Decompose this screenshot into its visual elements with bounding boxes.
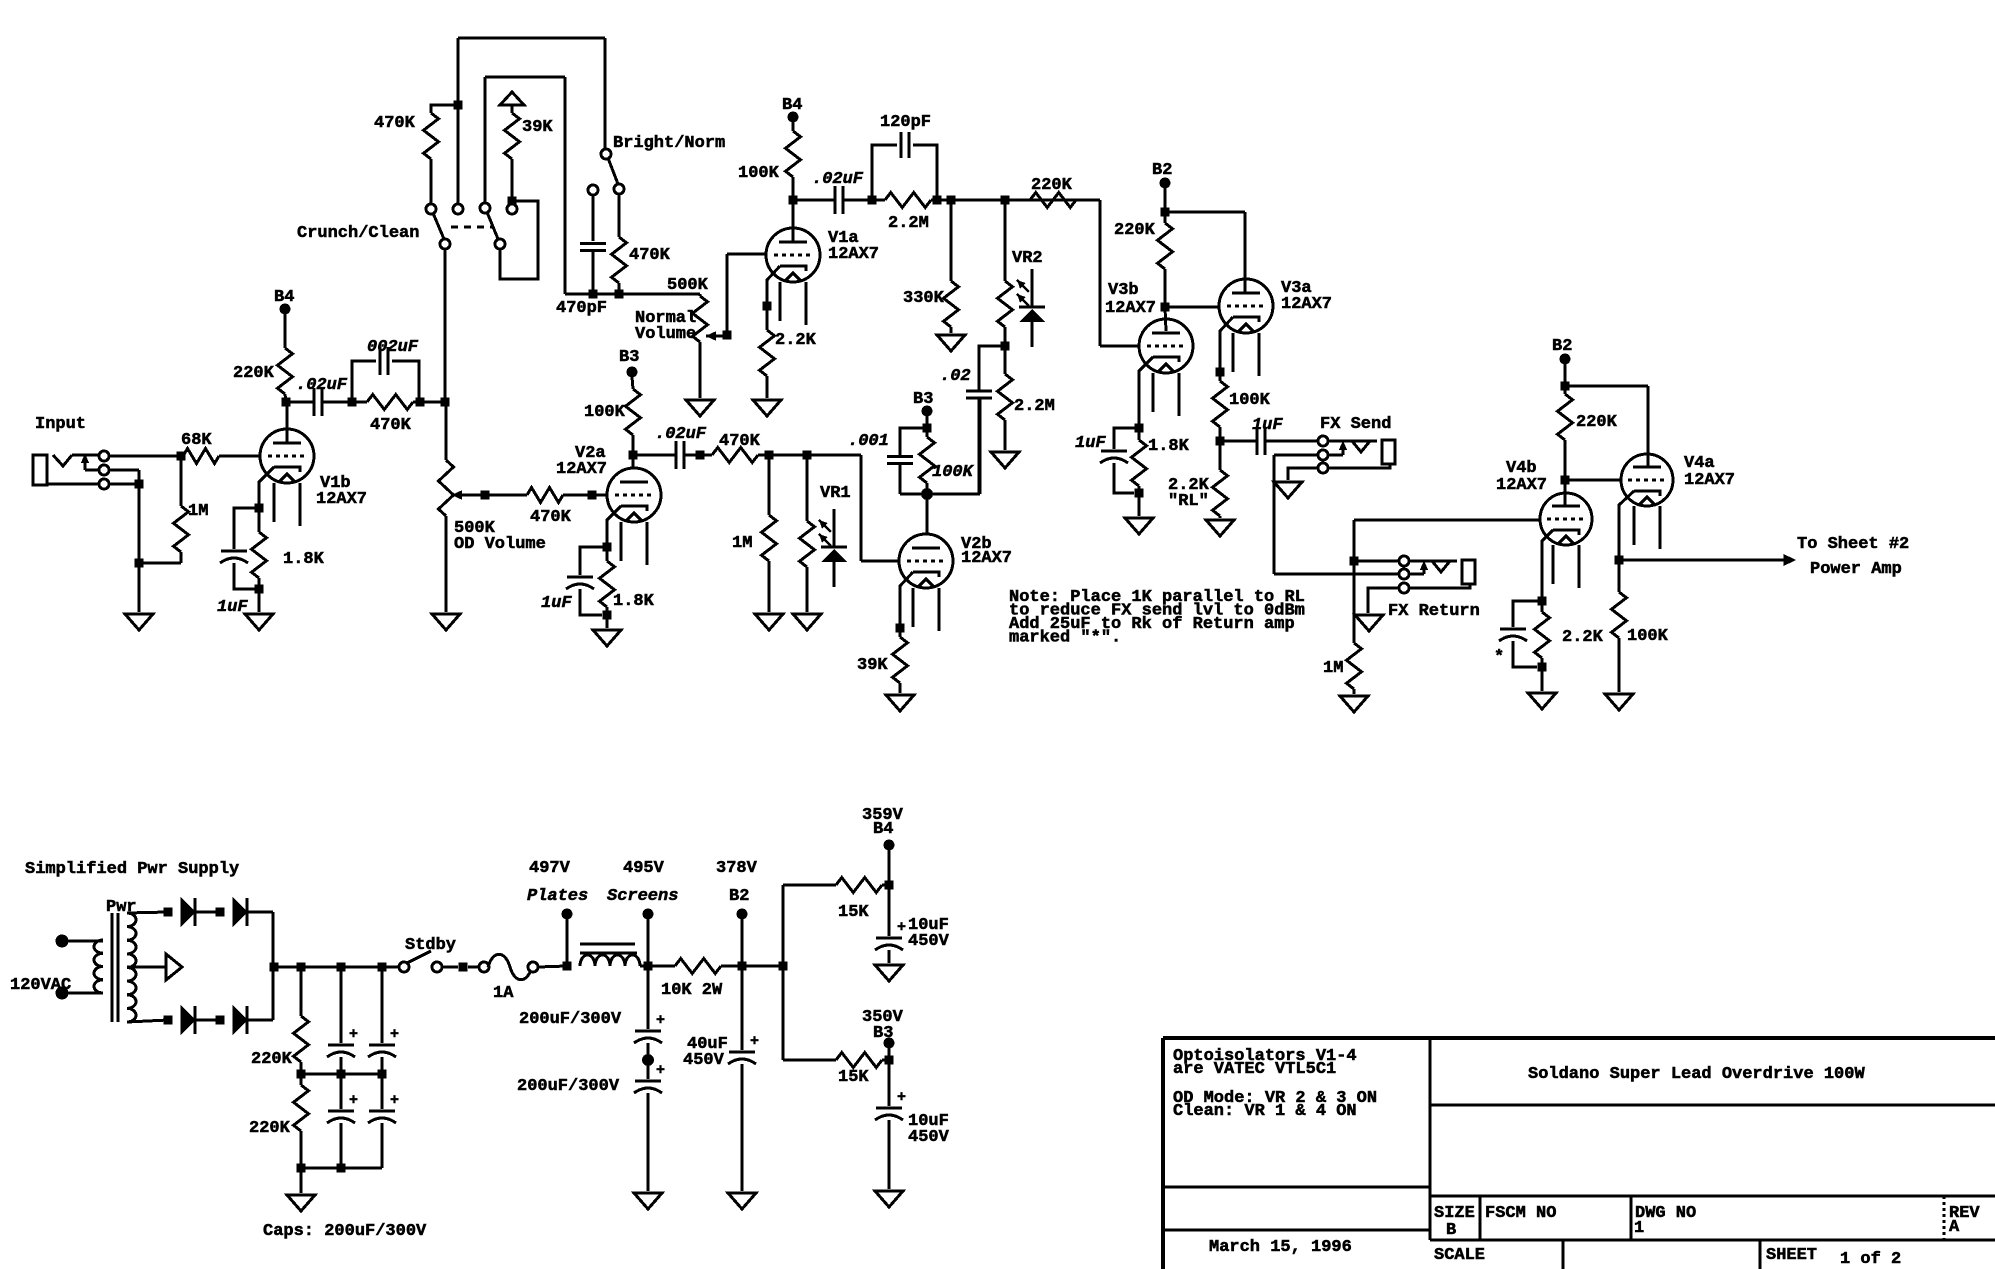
wire FX return sleeve	[1368, 588, 1399, 613]
switch Crunch/Clean pole2	[480, 203, 517, 249]
resistor 220K V3b plate	[1114, 212, 1173, 312]
wire FX send sleeve	[1288, 468, 1318, 480]
diode D3	[181, 1006, 195, 1034]
resistor 100K V2b plate	[920, 428, 975, 500]
svg-text:1A: 1A	[493, 984, 514, 1003]
wire choke out	[640, 962, 675, 971]
capacitor filter C2	[368, 967, 399, 1074]
resistor 220K V1b plate	[233, 314, 293, 402]
svg-text:100K: 100K	[932, 463, 975, 482]
svg-text:1.8K: 1.8K	[613, 592, 655, 611]
switch Stdby	[399, 936, 456, 972]
tube V4a	[1621, 454, 1735, 549]
ground 40uF	[728, 1193, 756, 1209]
wire V1b cathode	[255, 467, 275, 513]
svg-text:Clean: VR 1 & 4 ON: Clean: VR 1 & 4 ON	[1173, 1102, 1357, 1121]
svg-text:2.2K: 2.2K	[775, 331, 817, 350]
wire V4b cathode	[1538, 530, 1554, 606]
arrow center tap	[166, 954, 182, 980]
wire return to V4b grid	[1354, 520, 1540, 561]
svg-text:220K: 220K	[249, 1119, 291, 1138]
svg-text:B: B	[1446, 1221, 1456, 1240]
capacitor .02 VR2	[940, 346, 1005, 494]
resistor 2.2K V1a	[760, 306, 817, 398]
svg-text:B3: B3	[873, 1024, 893, 1043]
resistor 100K V1a plate	[738, 122, 801, 200]
ground RL	[1206, 520, 1234, 536]
resistor 220K V4	[1558, 386, 1618, 485]
resistor 39K V2b	[857, 628, 908, 693]
resistor 470K crunch	[374, 105, 458, 204]
wire V2a cathode	[603, 506, 622, 552]
ground 330K	[937, 335, 965, 351]
capacitor 120pF	[872, 113, 937, 200]
svg-text:1.8K: 1.8K	[1148, 437, 1190, 456]
resistor 470K bright	[612, 194, 671, 299]
svg-text:2.2M: 2.2M	[1014, 397, 1055, 416]
svg-text:200uF/300V: 200uF/300V	[519, 1010, 622, 1029]
svg-text:100K: 100K	[1627, 627, 1669, 646]
svg-text:.02: .02	[940, 367, 971, 386]
resistor 10K 2W	[661, 959, 747, 1001]
diode D1	[181, 898, 195, 926]
terminal 120VAC hot	[56, 935, 104, 948]
node 497V Plates	[527, 859, 588, 966]
svg-text:B2: B2	[729, 887, 749, 906]
svg-text:FX Return: FX Return	[1388, 602, 1480, 621]
capacitor .001	[848, 428, 927, 494]
svg-text:002uF: 002uF	[367, 338, 419, 357]
wire pole1 common down	[444, 248, 447, 402]
svg-text:12AX7: 12AX7	[1281, 295, 1332, 314]
resistor 220K bleeder2	[249, 1074, 309, 1173]
resistor 1M input	[143, 460, 208, 563]
wire out rail	[769, 451, 861, 460]
wire secondary top	[127, 908, 173, 917]
title block frame	[1163, 1038, 1995, 1269]
svg-text:Power Amp: Power Amp	[1810, 560, 1902, 579]
svg-text:FX Send: FX Send	[1320, 415, 1391, 434]
jack FX Send	[1318, 415, 1395, 473]
node B2 V4	[1552, 337, 1572, 365]
wire V4a grid	[1565, 479, 1622, 482]
svg-text:470K: 470K	[370, 416, 412, 435]
svg-text:39K: 39K	[857, 656, 888, 675]
wire wiper to V1a grid	[727, 254, 767, 335]
svg-text:Plates: Plates	[527, 887, 588, 906]
wire V2a grid	[592, 494, 607, 497]
resistor 2.2M	[872, 193, 942, 234]
wire bleeder gnd	[300, 1168, 303, 1193]
fscm cell	[1485, 1204, 1556, 1223]
wire cap bottom rail	[301, 1164, 382, 1173]
svg-text:120VAC: 120VAC	[10, 976, 71, 995]
ground 1M return	[1340, 696, 1368, 712]
svg-text:470K: 470K	[719, 432, 761, 451]
potentiometer 500K OD Volume	[439, 402, 546, 612]
svg-text:2.2K: 2.2K	[1562, 628, 1604, 647]
wire D3-D4	[196, 1016, 225, 1025]
svg-text:15K: 15K	[838, 1068, 869, 1087]
wire stdby out	[442, 963, 478, 972]
capacitor bypass V4b	[1494, 601, 1542, 667]
wire V3a plate	[1165, 212, 1245, 293]
svg-text:1uF: 1uF	[1252, 416, 1283, 435]
node B4 V1b	[274, 288, 294, 315]
ground 100K V4a	[1605, 694, 1633, 710]
wire cap mid rail	[301, 1070, 387, 1079]
svg-text:+: +	[656, 1012, 665, 1029]
note text	[1009, 588, 1305, 648]
wire V4a cathode	[1615, 491, 1635, 565]
wire V4a plate	[1565, 386, 1648, 466]
sheet cell	[1766, 1246, 1901, 1269]
ground 1M	[755, 614, 783, 630]
node 378V B2	[716, 859, 758, 966]
wire dropper riser	[783, 885, 836, 966]
resistor 220K bleeder1	[251, 967, 309, 1079]
svg-text:10K 2W: 10K 2W	[661, 981, 723, 1000]
wire D2 corner	[248, 912, 273, 967]
tube V3b	[1105, 281, 1193, 416]
wire V3a cathode	[1216, 317, 1234, 377]
wire input sleeve	[109, 483, 139, 486]
svg-text:120pF: 120pF	[880, 113, 931, 132]
svg-text:12AX7: 12AX7	[1496, 476, 1547, 495]
svg-text:are VATEC VTL5C1: are VATEC VTL5C1	[1173, 1060, 1336, 1079]
capacitor filter C3	[327, 1074, 358, 1168]
capacitor 1uF V1b	[217, 508, 259, 617]
svg-text:1M: 1M	[188, 502, 208, 521]
svg-text:FSCM NO: FSCM NO	[1485, 1204, 1556, 1223]
title block notes	[1173, 1047, 1377, 1121]
resistor 2.2K RL	[1168, 441, 1228, 518]
tube V2a	[556, 444, 661, 565]
svg-text:12AX7: 12AX7	[316, 490, 367, 509]
wire D4 corner	[248, 963, 279, 1021]
svg-text:March 15, 1996: March 15, 1996	[1209, 1238, 1352, 1257]
svg-text:B4: B4	[873, 820, 893, 839]
ground V4b	[1528, 693, 1556, 709]
svg-text:SHEET: SHEET	[1766, 1246, 1817, 1265]
svg-text:330K: 330K	[903, 289, 945, 308]
svg-text:OD Volume: OD Volume	[454, 535, 546, 554]
resistor 1.8K V3b	[1132, 428, 1190, 498]
resistor 470K V1b out	[352, 395, 425, 436]
tube V1b	[260, 429, 367, 526]
jack FX Return	[1388, 556, 1480, 621]
scale cell	[1434, 1246, 1485, 1265]
node 495V Screens	[607, 859, 678, 966]
resistor 15K B3	[836, 1053, 894, 1088]
svg-text:100K: 100K	[738, 164, 780, 183]
ground 39K	[886, 695, 914, 711]
ground VR1	[793, 614, 821, 630]
tube V2b	[899, 534, 1012, 631]
wire B+ rail	[274, 963, 400, 972]
wire V2b cathode	[896, 572, 914, 633]
svg-text:220K: 220K	[1114, 221, 1156, 240]
resistor 100K V4a	[1612, 560, 1669, 692]
svg-text:"RL": "RL"	[1168, 492, 1209, 511]
label 120VAC	[10, 976, 71, 995]
capacitor filter C4	[368, 1074, 399, 1168]
capacitor 200uF screens2	[517, 1062, 665, 1191]
wire right drop	[564, 77, 567, 294]
resistor 1M V2b grid	[732, 455, 777, 612]
ground 2.2K V1a	[753, 400, 781, 416]
transformer T1	[94, 898, 137, 1022]
svg-text:*: *	[1494, 648, 1504, 667]
ground V2a	[593, 630, 621, 646]
svg-text:To Sheet #2: To Sheet #2	[1797, 535, 1909, 554]
capacitor filter C1	[327, 967, 358, 1074]
ground V3b	[1125, 518, 1153, 534]
wire FX send ring	[1274, 455, 1318, 574]
svg-text:+: +	[390, 1092, 399, 1109]
svg-text:B3: B3	[913, 390, 933, 409]
wire B3 V2b	[923, 416, 932, 433]
svg-text:+: +	[897, 1089, 906, 1106]
wire rail 470pF	[565, 293, 700, 296]
capacitor 200uF screens1	[519, 966, 665, 1079]
svg-text:Volume: Volume	[635, 325, 696, 344]
wire V1a plate	[789, 196, 798, 243]
svg-text:Input: Input	[35, 415, 86, 434]
svg-text:Screens: Screens	[607, 887, 678, 906]
svg-text:2.2M: 2.2M	[888, 214, 929, 233]
svg-text:470K: 470K	[530, 508, 572, 527]
wire V3b cathode	[1135, 357, 1154, 433]
svg-text:220K: 220K	[1031, 176, 1073, 195]
wire fuse to choke	[538, 962, 572, 971]
svg-text:450V: 450V	[683, 1051, 725, 1070]
wire FX return ring	[1274, 573, 1399, 576]
svg-text:12AX7: 12AX7	[1684, 471, 1735, 490]
capacitor .02uF V2a out	[633, 425, 707, 469]
svg-text:1M: 1M	[732, 534, 752, 553]
svg-text:1uF: 1uF	[1075, 434, 1106, 453]
svg-text:+: +	[656, 1062, 665, 1079]
wire V2a cathode gnd	[606, 615, 609, 628]
wire V1b cathode gnd	[258, 589, 261, 612]
resistor 1.8K V2a	[600, 547, 655, 620]
ground 10uF B3	[875, 1191, 903, 1207]
svg-text:100K: 100K	[1229, 391, 1271, 410]
resistor 68K	[181, 431, 219, 464]
wire V1a cathode	[763, 266, 781, 311]
svg-text:+: +	[750, 1033, 759, 1050]
wire left drop	[454, 38, 463, 204]
node B3 supply	[862, 1008, 904, 1060]
svg-text:220K: 220K	[1576, 413, 1618, 432]
capacitor 40uF B2	[683, 966, 759, 1191]
title text	[1528, 1065, 1865, 1084]
switch link dashed	[451, 226, 492, 229]
svg-text:12AX7: 12AX7	[1105, 299, 1156, 318]
ground input	[125, 614, 153, 630]
svg-text:Soldano Super Lead Overdrive 1: Soldano Super Lead Overdrive 100W	[1528, 1065, 1865, 1084]
svg-text:68K: 68K	[181, 431, 212, 450]
svg-text:+: +	[897, 919, 906, 936]
svg-text:Stdby: Stdby	[405, 936, 456, 955]
node B2 V3	[1152, 161, 1172, 189]
svg-text:B4: B4	[782, 96, 802, 115]
svg-text:378V: 378V	[716, 859, 758, 878]
resistor 470K V2a grid	[485, 488, 597, 528]
wire switch top rail	[458, 37, 605, 40]
svg-text:220K: 220K	[233, 364, 275, 383]
svg-text:1: 1	[1634, 1219, 1644, 1238]
svg-text:VR2: VR2	[1012, 249, 1043, 268]
capacitor 10uF B3	[875, 1060, 950, 1189]
svg-text:1 of 2: 1 of 2	[1840, 1250, 1901, 1269]
svg-text:497V: 497V	[529, 859, 571, 878]
wire V1b plate	[282, 398, 291, 444]
resistor 2.2K V4b	[1535, 601, 1604, 672]
wire secondary bottom	[127, 1016, 173, 1025]
fuse 1A	[479, 954, 538, 1003]
capacitor 1uF FX	[1220, 416, 1318, 455]
wire V3b to V3a grid	[1165, 306, 1220, 309]
wire input ring	[109, 470, 144, 612]
svg-text:.02uF: .02uF	[296, 376, 348, 395]
label caps	[263, 1222, 427, 1241]
input jack J1	[33, 415, 109, 489]
capacitor 002uF bypass	[352, 338, 419, 402]
svg-text:15K: 15K	[838, 903, 869, 922]
svg-text:.02uF: .02uF	[655, 425, 707, 444]
ground FX send	[1274, 482, 1302, 498]
switch Bright/Norm	[601, 134, 725, 194]
size cell	[1434, 1204, 1475, 1240]
wire V2b plate	[926, 494, 929, 535]
wire V4b cathode gnd	[1541, 667, 1544, 691]
wire B2 V3	[1161, 188, 1170, 217]
svg-text:A: A	[1949, 1218, 1960, 1237]
svg-text:12AX7: 12AX7	[961, 549, 1012, 568]
svg-text:B2: B2	[1552, 337, 1572, 356]
ground OD pot	[432, 614, 460, 630]
ground Normal pot	[686, 400, 714, 416]
svg-text:220K: 220K	[251, 1050, 293, 1069]
node B4 V1a	[782, 96, 802, 123]
wire to switch node	[420, 398, 450, 407]
capacitor 1uF V3b	[1075, 428, 1139, 493]
svg-text:39K: 39K	[522, 118, 553, 137]
terminal 120VAC neutral	[56, 987, 104, 1000]
resistor 15K B4	[836, 878, 894, 923]
node B4 supply	[862, 806, 904, 885]
tube V4b	[1496, 459, 1592, 588]
wire bright drop	[604, 38, 607, 149]
capacitor .02uF V1a out	[793, 170, 877, 214]
resistor 220K V1a out	[1005, 176, 1100, 208]
date text	[1209, 1238, 1352, 1257]
svg-text:Crunch/Clean: Crunch/Clean	[297, 224, 419, 243]
svg-text:470K: 470K	[629, 246, 671, 265]
svg-text:Bright/Norm: Bright/Norm	[613, 134, 725, 153]
wire 68K to V1b grid	[219, 455, 260, 458]
capacitor 470pF	[556, 185, 607, 318]
svg-text:1uF: 1uF	[541, 594, 572, 613]
wire to power amp	[1619, 535, 1909, 579]
dwg cell	[1634, 1204, 1696, 1238]
svg-text:12AX7: 12AX7	[556, 460, 607, 479]
svg-text:SCALE: SCALE	[1434, 1246, 1485, 1265]
diode D4	[233, 1006, 247, 1034]
label pwr supply	[25, 860, 239, 879]
svg-text:B3: B3	[619, 348, 639, 367]
wire V2b out	[927, 398, 980, 494]
wire V3b plate	[1165, 307, 1166, 331]
wire pole2 hook	[500, 197, 538, 280]
wire V1a out rail	[937, 196, 1100, 205]
wire center tap	[127, 966, 166, 969]
resistor 1M return	[1323, 561, 1362, 694]
wire second rail	[485, 76, 565, 79]
svg-text:VR1: VR1	[820, 484, 851, 503]
ground FX return sleeve	[1355, 615, 1383, 631]
wire V2b grid	[861, 455, 899, 561]
wire D1-D2	[196, 908, 225, 917]
svg-text:1.8K: 1.8K	[283, 550, 325, 569]
wire V3b cathode gnd	[1138, 493, 1141, 516]
node B3 V2a	[619, 348, 639, 378]
svg-text:B4: B4	[274, 288, 294, 307]
wire V2a plate	[629, 451, 638, 469]
diode D2	[233, 898, 247, 926]
wire input tip	[109, 452, 186, 461]
svg-text:1M: 1M	[1323, 659, 1343, 678]
svg-text:450V: 450V	[908, 932, 950, 951]
svg-text:.001: .001	[848, 432, 889, 451]
capacitor .02uF V1b	[286, 376, 357, 416]
wire dropper lower	[783, 966, 836, 1060]
resistor 330K	[903, 200, 959, 333]
wire V4b plate	[1564, 480, 1567, 507]
svg-text:.02uF: .02uF	[812, 170, 864, 189]
svg-text:100K: 100K	[584, 403, 626, 422]
svg-text:12AX7: 12AX7	[828, 245, 879, 264]
capacitor 1uF V2a	[541, 547, 607, 615]
tube V1a	[766, 228, 879, 325]
svg-text:+: +	[390, 1026, 399, 1043]
arrow up 39K	[500, 92, 524, 105]
resistor 470K V2a out	[700, 432, 774, 463]
svg-text:450V: 450V	[908, 1128, 950, 1147]
optoisolator VR1	[800, 455, 851, 612]
ground screens caps	[634, 1193, 662, 1209]
svg-text:marked "*".: marked "*".	[1009, 629, 1121, 648]
svg-text:470K: 470K	[374, 114, 416, 133]
svg-text:+: +	[349, 1026, 358, 1043]
svg-text:495V: 495V	[623, 859, 665, 878]
optoisolator VR2	[998, 200, 1046, 351]
resistor 100K V2a plate	[584, 377, 641, 455]
svg-text:Simplified Pwr Supply: Simplified Pwr Supply	[25, 860, 239, 879]
svg-text:Caps: 200uF/300V: Caps: 200uF/300V	[263, 1222, 427, 1241]
wire second drop	[484, 77, 487, 203]
switch Crunch/Clean pole1	[297, 204, 463, 249]
ground bleeder	[287, 1195, 315, 1211]
svg-text:470pF: 470pF	[556, 299, 607, 318]
resistor 100K V3a	[1213, 372, 1271, 446]
resistor 2.2M VR2	[998, 346, 1055, 450]
capacitor 10uF B4	[875, 885, 950, 963]
wire V3b grid drop	[1100, 200, 1139, 346]
svg-text:500K: 500K	[667, 276, 709, 295]
